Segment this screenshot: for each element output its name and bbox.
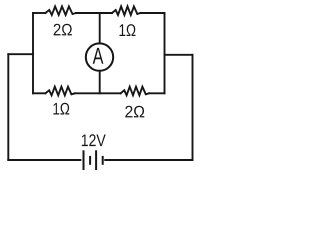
wire top rail left segment xyxy=(33,12,45,14)
wire right stub xyxy=(165,54,193,56)
wire inner-right vertical xyxy=(164,13,166,93)
resistor R3 1ohm bottom-left zigzag xyxy=(45,87,74,96)
wire top rail right segment xyxy=(141,12,165,14)
battery B1 short plate 1 xyxy=(89,156,91,165)
label 1ohm for R2 xyxy=(120,24,136,36)
wire bottom bridge rail left segment xyxy=(33,92,45,94)
label A inside ammeter U1 xyxy=(93,48,104,64)
wire bottom rail right of battery xyxy=(105,159,192,161)
resistor R4 2ohm bottom-right zigzag xyxy=(121,87,149,96)
wire ammeter branch lower xyxy=(99,71,101,93)
wire bottom rail left of battery xyxy=(8,159,80,161)
ammeter U1 circle xyxy=(86,43,113,70)
wire ammeter branch upper xyxy=(99,13,101,43)
label 1ohm for R3 xyxy=(53,103,69,115)
resistor R2 1ohm top-right zigzag xyxy=(112,6,141,15)
wire bottom bridge rail middle segment xyxy=(75,92,121,94)
battery B1 long plate 2 xyxy=(95,150,97,170)
label 12V for battery B1 xyxy=(82,134,106,146)
wire top rail middle segment xyxy=(76,12,112,14)
wire outer-left vertical xyxy=(7,54,9,160)
label 2ohm for R4 xyxy=(125,106,144,118)
wire inner-left vertical xyxy=(32,13,34,93)
wire left stub xyxy=(8,53,33,55)
resistor R1 2ohm top-left zigzag xyxy=(45,6,76,15)
battery B1 short plate 2 xyxy=(102,156,104,165)
battery B1 long plate 1 xyxy=(83,150,85,170)
wire bottom bridge rail right segment xyxy=(149,92,165,94)
label 2ohm for R1 xyxy=(54,24,72,36)
wire outer-right vertical xyxy=(192,55,194,160)
